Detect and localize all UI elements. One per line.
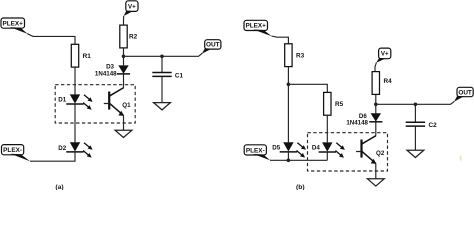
resistor R1 xyxy=(71,44,78,67)
svg-text:(b): (b) xyxy=(296,184,305,190)
svg-text:V+: V+ xyxy=(128,3,136,10)
wire V+ to R2 xyxy=(123,16,125,25)
wire Q1 emitter to ground xyxy=(123,115,125,130)
capacitor C2 xyxy=(414,104,416,121)
wire Q2 emitter to ground xyxy=(375,163,377,178)
wire node to OUT flag xyxy=(124,53,203,56)
junction R4/D6/OUT xyxy=(374,103,378,107)
wire Q1 collector to D3 cathode xyxy=(123,74,125,88)
wire R1 to D1 xyxy=(74,67,76,94)
junction C2/OUT xyxy=(414,103,418,107)
svg-text:Q2: Q2 xyxy=(376,150,385,157)
resistor R3 xyxy=(285,44,292,67)
svg-text:R3: R3 xyxy=(296,53,305,60)
svg-text:R4: R4 xyxy=(384,78,393,85)
optocoupler OK1 (D1 + Q1) xyxy=(55,85,135,123)
svg-text:D4: D4 xyxy=(312,145,320,152)
wire PLEX+ to R1 xyxy=(27,34,75,45)
svg-text:D1: D1 xyxy=(58,97,66,104)
flag PLEX- (b) xyxy=(244,145,270,161)
wire D1 cathode to D2 xyxy=(74,104,76,142)
svg-text:PLEX+: PLEX+ xyxy=(245,23,266,30)
svg-text:D2: D2 xyxy=(58,145,66,152)
junction D5/bottom rail xyxy=(287,159,291,163)
wire Q2 collector to D6 xyxy=(375,122,377,136)
ground at C1 xyxy=(154,103,171,110)
wire R4 to node OUT (b) xyxy=(375,94,377,113)
svg-text:PLEX-: PLEX- xyxy=(3,147,22,154)
wire R5 to D4 xyxy=(326,115,328,142)
svg-text:PLEX-: PLEX- xyxy=(246,147,265,154)
svg-text:C2: C2 xyxy=(429,122,438,129)
svg-text:D5: D5 xyxy=(272,145,280,152)
ground at C2 xyxy=(407,150,424,157)
wire V+ to R4 xyxy=(375,63,376,72)
wire D4 to bottom rail xyxy=(326,152,328,160)
flag PLEX- (a) xyxy=(2,145,31,162)
wire PLEX+ to R3 xyxy=(272,36,289,44)
svg-text:OUT: OUT xyxy=(206,42,220,49)
svg-text:PLEX+: PLEX+ xyxy=(2,20,23,27)
resistor R5 xyxy=(324,92,331,115)
LED D5 xyxy=(280,142,306,157)
svg-text:D3: D3 xyxy=(106,64,114,71)
svg-text:C1: C1 xyxy=(175,72,184,79)
wire C2 to ground xyxy=(414,126,416,150)
svg-text:R5: R5 xyxy=(335,101,344,108)
bottom rail to PLEX- (b) xyxy=(270,159,327,161)
flag V+ (b) xyxy=(376,48,391,63)
diode D3 1N4148 xyxy=(117,65,130,74)
wire R3 to D5 xyxy=(287,67,289,143)
junction R3/R5 xyxy=(287,83,291,87)
diode D6 1N4148 xyxy=(369,113,382,122)
flag PLEX+ (a) xyxy=(1,18,28,34)
LED D2 xyxy=(66,142,92,157)
faint watermark xyxy=(460,154,463,163)
ground at Q1 emitter xyxy=(115,130,132,137)
resistor R2 xyxy=(120,25,127,48)
flag OUT (a) xyxy=(202,40,221,54)
svg-text:V+: V+ xyxy=(381,51,389,58)
flag OUT (b) xyxy=(454,87,473,101)
wire junction to R5 xyxy=(288,84,327,92)
junction R2/D3/OUT xyxy=(122,55,126,59)
svg-text:Q1: Q1 xyxy=(122,102,131,109)
svg-text:1N4148: 1N4148 xyxy=(95,71,117,78)
svg-text:R1: R1 xyxy=(83,53,92,60)
resistor R4 xyxy=(372,72,379,95)
junction C1/OUT xyxy=(160,55,164,59)
flag PLEX+ (b) xyxy=(244,20,272,36)
svg-text:(a): (a) xyxy=(55,184,63,190)
capacitor C1 xyxy=(161,56,163,72)
wire node to OUT flag (b) xyxy=(376,101,455,104)
wire C1 to ground xyxy=(161,76,163,102)
svg-text:OUT: OUT xyxy=(458,89,472,96)
ground at Q2 emitter xyxy=(367,179,384,186)
svg-text:R2: R2 xyxy=(129,33,138,40)
svg-text:1N4148: 1N4148 xyxy=(346,120,368,127)
wire D2 to PLEX- xyxy=(30,152,75,161)
wire D5 to bottom rail xyxy=(287,152,289,160)
flag V+ (a) xyxy=(124,1,138,16)
optocoupler OK2 (D4 + Q2) xyxy=(308,133,388,171)
wire R2 to node OUT xyxy=(123,48,125,66)
